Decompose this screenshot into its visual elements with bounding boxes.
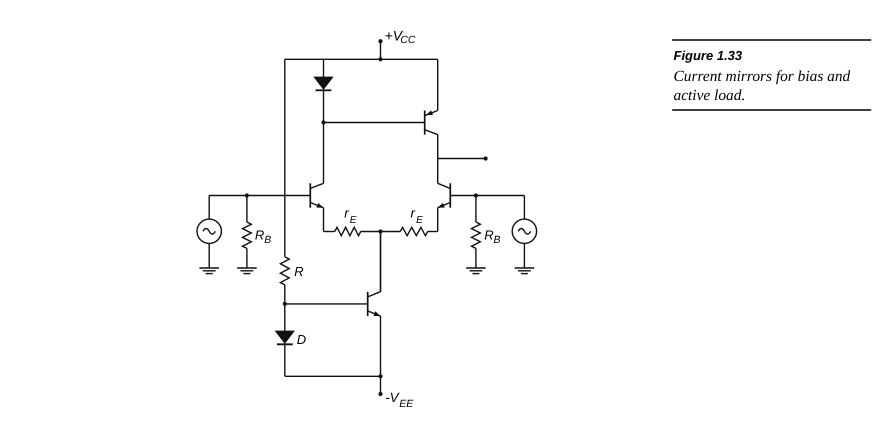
svg-text:D: D — [297, 332, 306, 347]
svg-text:active load.: active load. — [674, 87, 746, 104]
svg-text:E: E — [350, 215, 357, 226]
svg-text:B: B — [494, 234, 501, 246]
svg-text:B: B — [264, 234, 271, 246]
svg-text:CC: CC — [400, 35, 416, 46]
svg-text:r: r — [344, 205, 349, 220]
svg-text:r: r — [411, 205, 416, 220]
svg-text:R: R — [294, 264, 303, 279]
svg-text:E: E — [416, 215, 423, 226]
svg-text:R: R — [484, 228, 493, 243]
svg-text:R: R — [255, 228, 264, 243]
svg-text:Current mirrors for bias and: Current mirrors for bias and — [674, 68, 851, 85]
svg-text:Figure 1.33: Figure 1.33 — [674, 48, 743, 63]
svg-text:EE: EE — [399, 398, 414, 410]
